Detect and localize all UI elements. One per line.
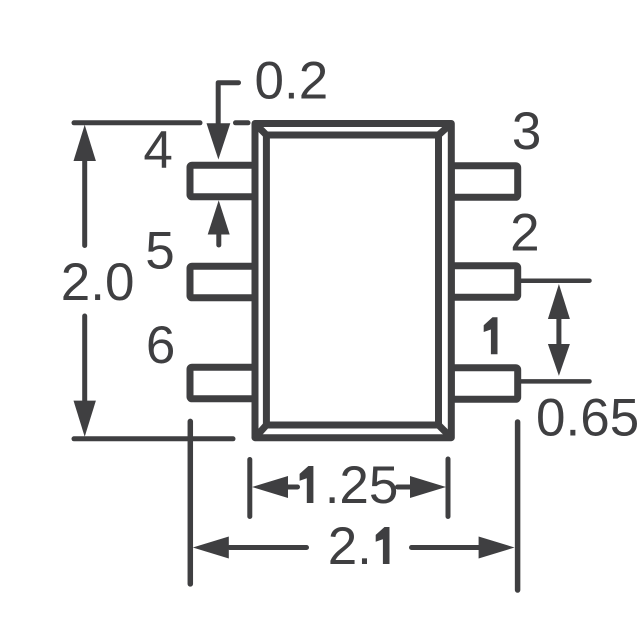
svg-text:2.: 2.	[328, 517, 372, 576]
svg-text:6: 6	[146, 316, 175, 375]
svg-text:5: 5	[145, 222, 174, 281]
svg-text:3: 3	[512, 102, 541, 161]
svg-text:2.0: 2.0	[61, 253, 135, 312]
svg-text:.25: .25	[325, 456, 399, 515]
svg-text:0.2: 0.2	[255, 51, 329, 110]
svg-text:0.65: 0.65	[536, 389, 639, 448]
svg-text:2: 2	[510, 204, 539, 263]
svg-text:4: 4	[143, 121, 172, 180]
